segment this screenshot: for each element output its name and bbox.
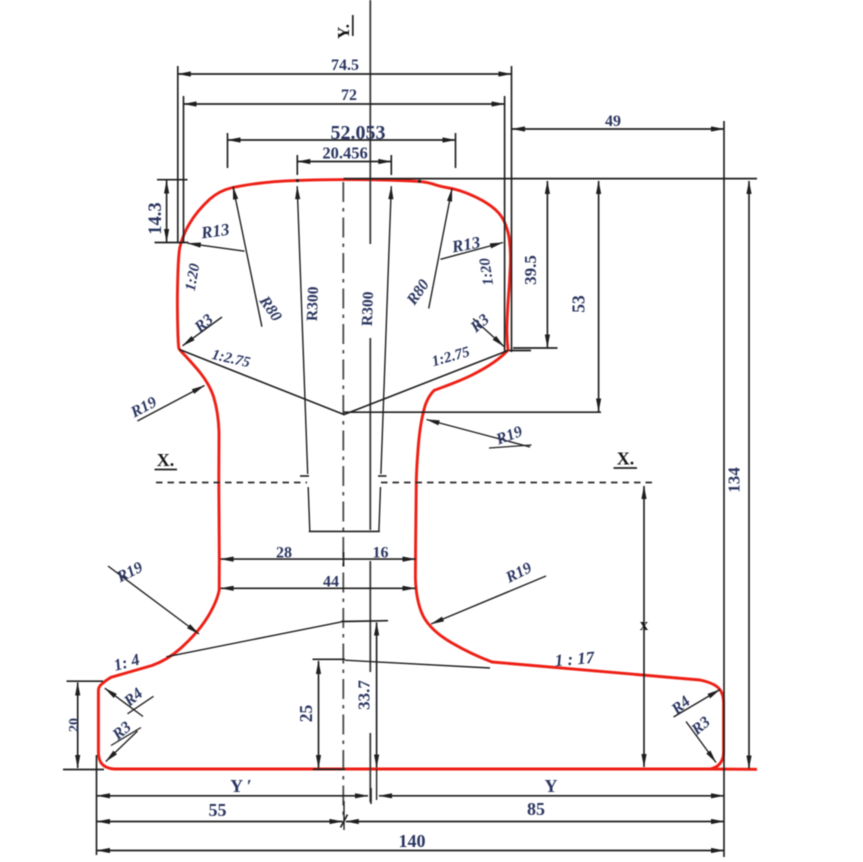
slope line 1:2.75 left xyxy=(180,350,345,415)
R3 left underline xyxy=(111,728,141,746)
dimension 39.5 line xyxy=(546,181,548,348)
svg-text:134: 134 xyxy=(725,467,744,493)
R4 left underline xyxy=(128,696,154,714)
20.456 extension left xyxy=(296,155,298,175)
crown tangent dot left xyxy=(296,179,299,182)
svg-text:X.: X. xyxy=(617,449,635,469)
74.5 extension line left xyxy=(177,66,179,243)
25 top tick xyxy=(313,658,346,660)
crown tangent dot right xyxy=(418,180,421,183)
20.456 extension right xyxy=(390,155,392,175)
svg-text:72: 72 xyxy=(341,87,357,104)
39.5 bottom tick xyxy=(513,347,558,349)
dimension 28/16 line xyxy=(221,558,416,560)
svg-text:X.: X. xyxy=(157,450,175,470)
dimension 20.456 line xyxy=(297,161,391,163)
dimension 14.3 line with arrows xyxy=(166,181,168,243)
R300 line left lower segment xyxy=(308,487,310,531)
red base line extension right xyxy=(706,768,757,771)
52.053 extension right xyxy=(455,133,457,168)
svg-text:85: 85 xyxy=(527,799,545,819)
svg-text:28: 28 xyxy=(276,545,292,562)
R3 head leader right with arrow xyxy=(473,319,504,347)
55/85 centre tick vertical xyxy=(343,801,345,830)
dimension 53 line xyxy=(598,181,600,412)
svg-text:14.3: 14.3 xyxy=(146,202,166,234)
R19 upper-right underline xyxy=(489,445,532,448)
svg-text:1 : 17: 1 : 17 xyxy=(554,648,597,671)
svg-text:55: 55 xyxy=(209,800,227,820)
74.5 extension line right xyxy=(511,66,513,352)
dimension 134 line xyxy=(748,181,750,769)
33.7 line continuation below base xyxy=(376,769,378,800)
R13 leader left with arrow xyxy=(188,243,245,251)
rail profile outline (red) xyxy=(98,180,723,769)
svg-text:20.456: 20.456 xyxy=(322,144,367,163)
Y/Y-prime boundary tick xyxy=(370,788,372,804)
R19 leader lower-right with arrow xyxy=(431,576,546,624)
20 top tick xyxy=(67,680,104,682)
dimension 52.053 line xyxy=(228,139,456,141)
dimension 55 line xyxy=(97,821,343,823)
top reference line at rail head level xyxy=(344,178,757,180)
dimension Y-prime line xyxy=(97,795,368,797)
slope line 1:17 extended xyxy=(345,660,490,668)
R19 leader upper-right with arrow xyxy=(427,420,531,448)
dash nub left on R300 line xyxy=(300,475,309,477)
slope line 1:2.75 right xyxy=(344,351,509,415)
dimension 140 line xyxy=(97,850,724,852)
dimension 74.5 line xyxy=(178,73,512,75)
svg-text:49: 49 xyxy=(605,113,621,130)
dimension Y line xyxy=(379,795,724,797)
72 extension line right xyxy=(504,96,506,352)
R3 head leader left with arrow xyxy=(183,317,223,346)
14.3 tick bottom xyxy=(155,242,189,244)
svg-text:140: 140 xyxy=(399,831,426,851)
52.053 extension left xyxy=(227,133,229,168)
svg-text:x: x xyxy=(640,615,649,634)
dimension 72 line xyxy=(184,103,505,105)
dimension 49 line xyxy=(512,128,724,130)
R300 lines bottom tick xyxy=(309,530,380,532)
55/85 boundary slant tick xyxy=(341,815,348,828)
R13 leader right with arrow xyxy=(441,243,504,260)
dimension 44 line xyxy=(221,587,416,589)
14.3 tick top xyxy=(157,179,188,181)
svg-text:Y.: Y. xyxy=(334,24,353,39)
dimension 33.7 line xyxy=(376,623,378,768)
svg-text:R300: R300 xyxy=(304,286,322,321)
R80 leader line right with arrow xyxy=(429,189,452,309)
dash nub right on R300 line xyxy=(378,475,387,477)
svg-text:44: 44 xyxy=(323,574,339,591)
R3 leader right with arrow xyxy=(686,722,716,763)
R19 leader upper-left with arrow xyxy=(137,386,204,422)
svg-text:52.053: 52.053 xyxy=(331,122,386,144)
vertical axis line (solid, right of centerline) xyxy=(369,0,371,244)
25 bottom tick xyxy=(313,768,345,770)
R80 leader line left with arrow xyxy=(233,187,262,327)
svg-text:74.5: 74.5 xyxy=(331,57,359,74)
R300 line left with arrow xyxy=(297,186,308,474)
49 / foot-right long extension line xyxy=(723,121,725,857)
svg-text:16: 16 xyxy=(373,545,389,562)
x dimension line with arrows xyxy=(643,486,645,767)
R4 leader left with arrow xyxy=(105,688,143,716)
left foot extension line xyxy=(96,755,98,855)
svg-text:25: 25 xyxy=(296,705,316,723)
svg-text:33.7: 33.7 xyxy=(355,680,374,710)
svg-text:Y: Y xyxy=(545,776,558,796)
dimension 20 line (foot edge) with arrows xyxy=(77,683,79,769)
dimension 25 line xyxy=(318,661,320,768)
R3 leader left with arrow xyxy=(106,731,138,762)
dimension 85 line xyxy=(346,821,724,823)
R19 leader lower-left with arrow xyxy=(108,566,199,634)
slope line 1:4 extended xyxy=(166,622,341,657)
53 bottom reference line xyxy=(344,411,602,413)
20 bottom tick xyxy=(63,769,104,771)
33.7 top tick xyxy=(341,620,388,623)
R300 line right lower segment xyxy=(379,487,381,531)
head corner extension right xyxy=(509,350,531,352)
72 extension line left xyxy=(183,96,185,242)
R4 leader right with arrow xyxy=(674,690,721,718)
svg-text:R300: R300 xyxy=(359,291,377,326)
28/16 centre tick xyxy=(343,552,345,567)
X axis dashed line xyxy=(156,482,307,484)
svg-text:53: 53 xyxy=(569,295,589,313)
svg-text:20: 20 xyxy=(67,718,82,732)
R300 line right with arrow xyxy=(381,186,391,474)
svg-text:39.5: 39.5 xyxy=(521,255,540,285)
centerline dash-dot (vertical axis of rail) xyxy=(342,182,344,815)
svg-text:Y ′: Y ′ xyxy=(230,776,252,796)
